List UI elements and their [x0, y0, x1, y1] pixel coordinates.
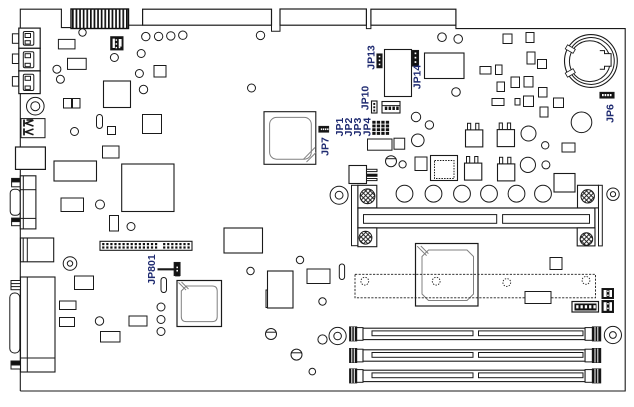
mounting ring H5 [604, 326, 621, 343]
small IC U1 (black with slots) [111, 37, 123, 50]
slot right bracket strip [599, 185, 603, 246]
board outline (PCB edge) [20, 9, 128, 391]
two small squares pair [64, 99, 72, 109]
component C8 [61, 198, 84, 212]
edge notch between port 1 and 2 [272, 25, 281, 31]
component C12 [101, 332, 121, 343]
via circle [157, 303, 165, 311]
via circle [542, 142, 549, 149]
component C4 [108, 127, 116, 135]
dashed outline zone [355, 274, 596, 298]
crystal Y3 (circle with chord) [386, 156, 397, 167]
connector below battery (black) [600, 92, 614, 98]
via circle [248, 84, 256, 92]
audio jack J3 [12, 77, 18, 87]
serial port connector 2 [21, 238, 54, 262]
cap circle [412, 134, 425, 147]
chip with frame U6 [431, 156, 458, 181]
small component S14 [554, 98, 564, 108]
crystal Y1 (circle with chord) [266, 329, 277, 340]
small component S4 [538, 60, 547, 69]
chip U2 [104, 81, 131, 108]
via circle [53, 65, 61, 73]
component C21 [562, 143, 575, 152]
via circle [110, 54, 118, 62]
component C17 [307, 269, 330, 284]
component C24 [525, 292, 551, 304]
component C18 [368, 139, 393, 150]
jumper block JB2 [602, 301, 614, 313]
A/V connector block [21, 119, 45, 138]
chevron marks inside A/V connector [26, 120, 34, 126]
component C14 [60, 301, 77, 310]
cap circle (large) [571, 112, 592, 133]
via circle [56, 75, 64, 83]
small component S8 [511, 77, 520, 88]
component C3 [154, 66, 166, 78]
svg-text:JP801: JP801 [146, 254, 158, 285]
cap circle [521, 126, 536, 141]
transistor Q4 [467, 157, 470, 164]
jumper JP7 (icon) [319, 127, 329, 133]
mounting hole (hatched) [581, 190, 594, 203]
edge notch between port 2 and 3 [366, 25, 371, 28]
DIMM slot 3 [350, 369, 357, 383]
small component S6 [496, 65, 503, 75]
mounting ring H4 [329, 327, 346, 344]
via circle [139, 85, 147, 93]
serial port connector (side view) [12, 178, 21, 182]
transistor Q3 [499, 123, 502, 130]
component C6 [103, 146, 120, 158]
svg-text:JP6: JP6 [605, 104, 617, 123]
svg-text:JP13: JP13 [365, 45, 377, 70]
cap circle [520, 157, 535, 172]
via circle [438, 33, 447, 42]
slot right bracket top box [578, 185, 599, 208]
jumper JP13 (icon) [377, 54, 382, 68]
row of capacitor circles above slot [396, 185, 413, 202]
svg-text:JP4: JP4 [361, 118, 373, 137]
component C13 [129, 316, 147, 326]
jumper JP10 (icon) [372, 101, 378, 113]
capacitor (pill) near JP801 [161, 278, 167, 293]
transistor Q5 [500, 157, 503, 164]
via circle [452, 88, 461, 97]
capacitor (pill) left of dashed zone [339, 264, 344, 280]
power connector [16, 147, 46, 169]
CPU socket U7 [416, 244, 479, 307]
small component S5 [480, 67, 491, 75]
component C20 [415, 157, 427, 171]
via circle [157, 316, 165, 324]
via circle [137, 50, 145, 58]
rear port opening 3 [371, 9, 456, 25]
QFP chip U4 [264, 112, 316, 165]
crystal Y2 (circle with chord) [291, 349, 302, 360]
component C5 [143, 115, 162, 134]
via circle [399, 161, 406, 168]
VGA/parallel connector (side view) [11, 281, 21, 290]
component C16 [268, 271, 294, 308]
jumper block JB1 [602, 289, 614, 299]
component C25 [75, 276, 94, 290]
jumper JP14 (icon) [413, 51, 419, 67]
battery BT1 (coin cell holder) [565, 35, 618, 88]
transistor Q2 [468, 123, 471, 130]
component C15 [60, 318, 75, 327]
mounting hole H2 (ring) [63, 257, 77, 271]
via circle [411, 112, 420, 121]
small component S3 [527, 52, 535, 64]
via circle [135, 70, 143, 78]
component C2 [68, 58, 87, 69]
wire from JP801 label to jumper [158, 268, 175, 270]
mounting ring H3 [607, 188, 619, 200]
via circle [425, 121, 433, 129]
small component S7 [497, 82, 505, 92]
mounting ring H6 [330, 186, 348, 204]
mounting hole (hatched) [359, 231, 372, 244]
via circle [454, 35, 463, 44]
small component S2 [526, 33, 534, 43]
svg-text:JP7: JP7 [320, 137, 332, 156]
component C1 [58, 39, 75, 49]
keyboard DIN connector (striped block) [71, 9, 129, 29]
via circle [296, 256, 303, 263]
via circle [127, 223, 135, 231]
via circle [157, 328, 165, 336]
audio jack J1 [12, 34, 18, 44]
audio jack J2 [12, 54, 18, 64]
5-pin connector CN3 (black dots) [572, 302, 599, 313]
slot left bracket bottom box [358, 228, 377, 247]
capacitor (pill) [97, 115, 103, 129]
via circle [309, 368, 316, 375]
small component S11 [492, 99, 504, 106]
slot right bracket bottom box [577, 228, 595, 246]
5-pin connector CN2 [382, 102, 400, 114]
jumper block JP1-JP4 (4x4 grid) [372, 121, 375, 124]
via circle [319, 298, 326, 305]
slot left bracket top box [358, 185, 377, 208]
small component S13 [524, 96, 534, 107]
mounting hole (hatched) [580, 233, 593, 246]
small component S9 [524, 77, 533, 88]
component block near JP13 [385, 50, 412, 97]
rear port opening 1 [143, 9, 272, 25]
via circle [96, 200, 105, 209]
DIMM slot 2 [350, 349, 357, 363]
component C9 [110, 216, 119, 232]
component C19 [394, 138, 405, 149]
slot left bracket strip [352, 185, 358, 245]
component C11 [266, 290, 292, 308]
component C7 [54, 161, 97, 181]
small component S10 [539, 88, 548, 98]
tiny part above chip U5 [176, 273, 180, 277]
via circle [95, 317, 103, 325]
super I/O chip U3 [122, 164, 174, 212]
component block near JP14 [425, 53, 465, 79]
2-row pin header CN1 [100, 241, 192, 250]
DIMM slot 1 [350, 327, 357, 341]
via circle [71, 128, 79, 136]
rear port opening 2 [280, 9, 366, 25]
via circle [247, 267, 254, 274]
dashed circles in zone [361, 277, 369, 285]
jumper JP801 (icon) [174, 263, 180, 276]
row of 4 circles (vias) below top edge [142, 32, 150, 40]
small component S1 [503, 34, 512, 44]
small component S15 [540, 107, 548, 117]
transistor Q1 [349, 166, 367, 184]
expansion slot connector (AMR/PCI) [358, 208, 595, 228]
svg-text:JP10: JP10 [360, 86, 372, 111]
component C22 [554, 174, 575, 193]
via circle [542, 161, 550, 169]
svg-text:JP14: JP14 [412, 65, 424, 90]
via/cap circle [79, 29, 86, 36]
via circle [318, 335, 327, 344]
BGA chip U5 [177, 281, 222, 327]
via circle [256, 31, 264, 39]
mounting hole H1 (ring) [27, 97, 45, 115]
mounting hole (hatched) [360, 189, 375, 204]
component C10 [224, 228, 263, 253]
component C23 [550, 258, 562, 270]
small component S12 [515, 99, 520, 106]
